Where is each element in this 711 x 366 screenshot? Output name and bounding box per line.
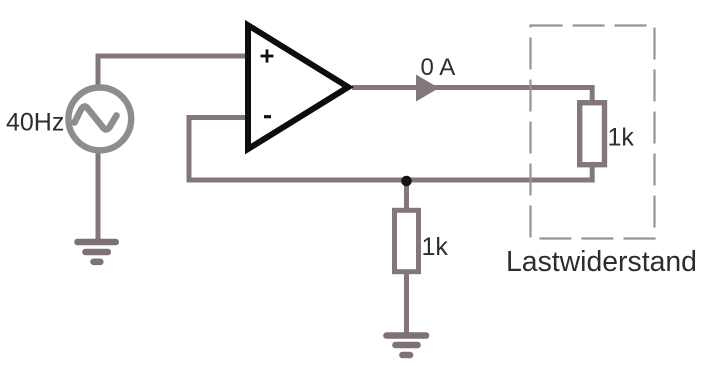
svg-text:40Hz: 40Hz: [6, 109, 64, 137]
svg-text:Lastwiderstand: Lastwiderstand: [506, 246, 697, 278]
op-amp plus input marking: [261, 49, 274, 62]
dashed box around load: [531, 26, 655, 239]
wire resistor R1 to ground: [404, 273, 409, 335]
svg-text:1k: 1k: [422, 233, 449, 261]
wire junction to resistor R1: [404, 180, 409, 209]
ground under R1: [387, 336, 427, 356]
op-amp U1: [248, 25, 348, 149]
feedback wire from inverting input to bottom net: [189, 118, 592, 181]
junction node dot: [401, 176, 412, 187]
current arrow on output wire: [416, 75, 439, 102]
output wire from op-amp to load: [352, 88, 592, 104]
wire from source bottom to ground: [96, 151, 101, 241]
svg-text:0 A: 0 A: [421, 54, 456, 81]
svg-text:1k: 1k: [608, 124, 635, 152]
AC source V1: [68, 88, 131, 151]
resistor R_load 1k: [580, 103, 605, 165]
ground under source: [78, 242, 116, 262]
wire from source to op-amp non-inverting input: [98, 56, 246, 86]
resistor R1 1k: [395, 210, 419, 271]
op-amp minus input marking: [264, 115, 271, 118]
